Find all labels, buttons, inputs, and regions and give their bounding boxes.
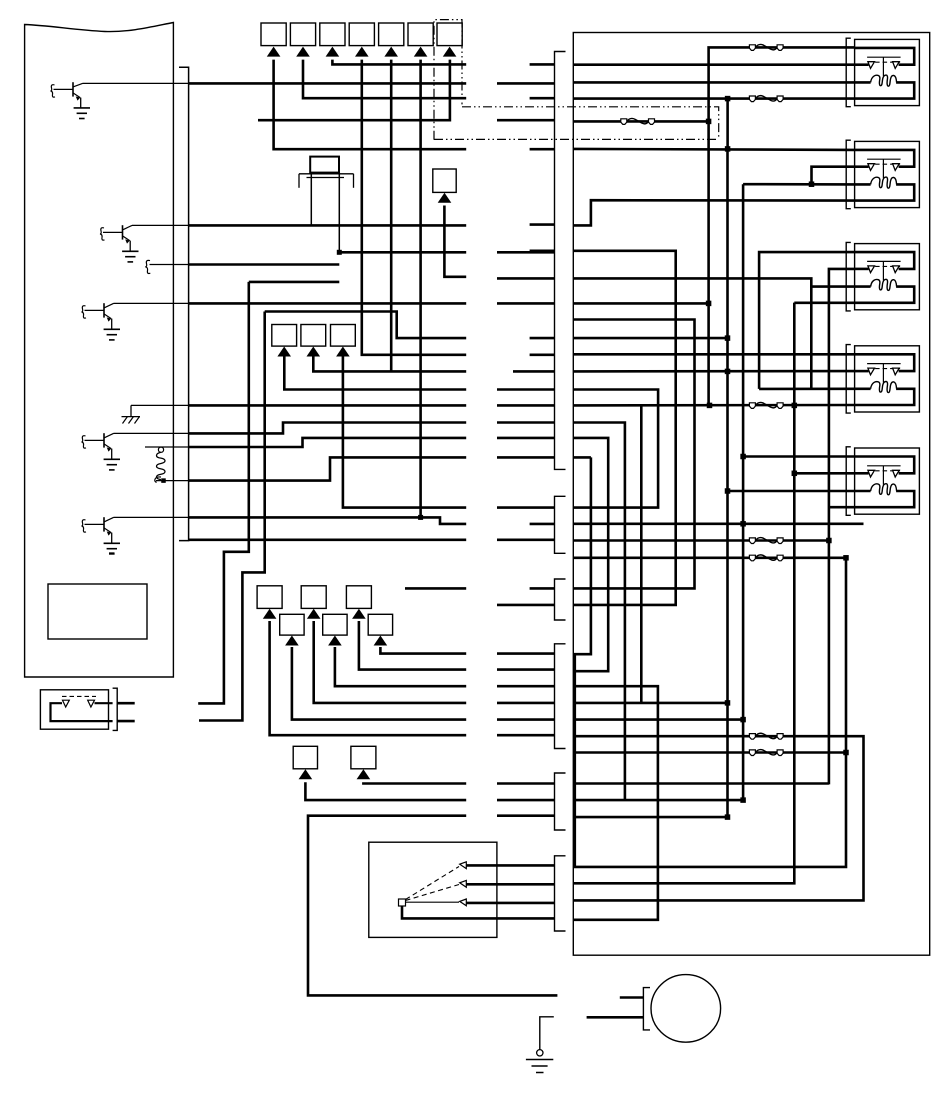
junction F5 [826,538,832,544]
distributor circle [651,975,721,1043]
wire B6 stem [419,60,422,518]
wire T1 e4 [573,97,854,100]
wire trunk x727 [726,149,729,817]
arrow into B3 [326,47,340,57]
wire T3 e3 branch [811,285,854,288]
wire E1 stem [305,782,466,800]
wire C-group stem2 [313,356,466,371]
sensor box D5 [346,586,371,609]
wire D2 stem [292,647,466,720]
junction B6/Q5 [418,515,423,520]
dash-dot harness boundary around B7 [434,20,719,140]
switch common contact [399,899,406,906]
wire B7 stem [258,60,450,121]
fuse F7 [749,734,755,740]
wire D5 stem [359,621,466,670]
fuse F4 [749,403,755,409]
arrow into B1 [267,47,281,57]
junction x743 a [740,521,746,527]
wire y588 left piece [405,587,466,590]
junction F2 [725,96,731,102]
fuse F8 [749,750,755,756]
sensor box C2 [301,325,326,347]
wire y523 run [573,522,863,525]
wire Q1 collector run [189,82,467,85]
ground symbol [537,1050,543,1056]
ignition coil T5 [846,447,851,516]
wire fused feed2 [573,751,846,754]
wire key net A horiz [249,281,339,284]
arrow into D2 [285,636,299,646]
arrow into B4 [355,47,369,57]
relay K1 box [40,690,108,729]
junction B+ t1 [725,146,731,152]
switch wire START [467,902,555,905]
connector bracket J/C F [555,856,566,931]
ground wire stub [540,1017,554,1050]
wire T3 e1 [759,252,855,389]
wire bracket4 n6 fused [573,736,863,900]
wire trunk x846 [573,558,846,867]
wire net B [199,312,265,721]
junction b5n3 [725,814,731,820]
arrow into D6 [374,636,388,646]
wire B3 stem [332,60,466,65]
sensor box D4 [323,614,347,635]
sensor box D1 [257,586,282,609]
ECU module outline (torn top edge) [25,23,174,678]
relay K1 output wires [117,702,135,705]
wire B4 stem [362,60,466,355]
wire trunk x743 [742,184,745,800]
wire D1 stem [270,621,467,735]
wire fuse B+ run [573,120,708,123]
indicator box B6 [408,23,433,46]
junction F6 [843,555,849,561]
wire T2 e2 [812,167,855,185]
wire fused pair 1 [573,539,829,542]
connector bracket J/C E [555,773,566,830]
wire D3 stem [314,621,467,703]
wire T5 e3 branch [728,490,855,493]
transistor Q1 [51,85,56,97]
chassis ground symbol [131,404,189,406]
relay K1 connector bracket [113,688,118,730]
junction y338 [725,335,731,341]
B8 feed wire [444,206,466,277]
wire B+ trunk upper [726,99,729,149]
junction T5 e1 [740,454,746,460]
junction y302 [706,301,712,307]
wire T5 e1 branch [743,455,855,458]
junction T4 e2 [725,369,731,375]
wire T1 e2 [573,63,854,66]
arrow into B6 [414,47,428,57]
arrow into C2 [307,347,321,357]
indicator box B8 [433,169,456,192]
arrow into D3 [307,609,321,619]
wire Q2 collector run [189,224,467,227]
junction x743 b [740,797,746,803]
wire switch feed edge [573,654,576,867]
arrow into C3 [336,347,350,357]
wire T4 e3 [759,387,855,390]
arrow into B2 [296,47,310,57]
wire T4 e1 [573,353,854,356]
ECU label dash [109,552,115,554]
switch throw dashed 1 [406,867,460,900]
wire T3 e4 branch [794,301,854,304]
ignition coil T1 [846,38,851,107]
junction T2 e2 [809,181,815,187]
connector bracket J/C A [555,52,566,470]
distributor bracket [643,988,650,1030]
arrow into E2 [357,769,371,779]
wire Q5 collector run [189,517,467,524]
switch wire ACC [467,864,555,867]
switch throw dashed 2 [406,885,460,901]
wire main feed loop [308,816,557,996]
wire y302 feed [573,302,708,305]
wire trunk x641 lower [640,508,643,703]
wire fused feed to T1 [709,47,855,121]
indicator box B7 [437,23,462,46]
wire J1 run [189,263,340,266]
wire y251 to trunk [573,251,675,605]
wire B1 stem [274,60,467,150]
transistor Q4 [82,436,87,448]
arrow into D1 [263,609,277,619]
wire B5 stem [390,60,393,372]
wire y338 feed [573,337,727,340]
sensor box D2 [280,614,304,635]
fuse F3 [621,119,627,125]
wire T2 e4 [573,200,854,225]
input curl J1 [145,260,150,273]
wire R1-top run [189,438,467,447]
wire y539 run [189,538,467,541]
ECU connector bracket [179,67,189,540]
ignition switch box [369,842,497,937]
sensor box D3 [301,586,326,609]
wire y457 stub piece [573,456,591,459]
junction F3 [706,119,712,125]
wire T2 e3 [743,183,855,186]
wire key net A [198,282,249,704]
wire bracket5 n2 [573,799,743,802]
wire T5 e4 [573,390,658,508]
transistor Q2 [100,228,105,240]
arrow into E1 [299,769,313,779]
switch wire ON [467,883,555,886]
ECU inner label box [48,584,147,639]
S1 left lead [310,173,312,226]
indicator box B2 [290,23,315,46]
junction F8 [843,750,849,756]
indicator box B1 [261,23,286,46]
ignition switch S1 [310,157,339,173]
connector bracket J/C D [555,644,566,749]
fuse F6 [749,555,755,561]
junction F4 b [792,403,798,409]
junction n5 [740,717,746,723]
wire trunk x625 [573,423,625,801]
relay K1 contacts [62,695,96,697]
distributor wire 2 [587,1016,644,1019]
wire net-311 [265,312,467,339]
sensor box D6 [368,614,392,635]
connector bracket J/C B [555,496,566,553]
indicator box B4 [349,23,374,46]
wire T3 e2 [829,269,855,785]
fuse F5 [749,538,755,544]
ignition coil T4 [846,345,851,414]
junction on R1 output [161,478,166,483]
relay K1 internal wiring [51,703,113,721]
wire trunk x794 [573,303,794,884]
arrow into C1 [277,347,291,357]
switch contact 1 [460,862,467,869]
indicator box B5 [379,23,404,46]
wire D6 stem [380,647,466,654]
sensor box E1 [293,746,317,769]
wire u-net y405 [640,405,643,507]
wire Q3 collector run [189,302,467,305]
transistor Q3 [82,306,87,318]
wire bracket5 n1 [573,782,829,785]
fuse F2 [749,96,755,102]
wire E2 stem [363,782,466,783]
wire bracket4 n5 [573,718,743,721]
wire chassis-gnd run [189,404,467,407]
wire trunk x694 [573,320,694,589]
wire stubs at junction block (long) [497,82,555,85]
switch contact 3 [460,899,467,906]
transistor Q5 [82,520,87,532]
switch contact 2 [460,880,467,887]
wire T4 e4 fused [573,404,854,407]
wire T5 e4b [829,506,855,509]
wire C-group stem1 [284,356,466,389]
junction T5 e3 [725,488,731,494]
arrow into D4 [328,636,342,646]
wire bracket4 n3 [573,686,658,920]
resistor R1 (coil) [145,446,189,448]
arrow into B7 [443,47,457,57]
wire T1 e3 [573,81,854,84]
indicator box B3 [320,23,345,46]
wire stubs at junction block (short) [530,63,555,66]
wire T2 e1 [573,149,854,150]
engine harness box [573,33,929,956]
wire trunk x708 [707,121,710,405]
fuse F1 [749,45,755,51]
wire Q4 collector run [189,423,467,434]
wire nested j1 [573,438,608,671]
wire S1 junction run [339,251,466,254]
ignition coil T3 [846,242,851,311]
arrow into D5 [352,609,366,619]
junction T5 e2 [792,471,798,477]
wire D4 stem [335,647,466,686]
wire bracket4 n4 [573,702,727,705]
junction S1 [337,250,342,255]
junction n4 [725,700,731,706]
wire T4 e2 [573,370,854,373]
wire fused pair 2 [573,556,846,559]
wire C-group stem3 [343,356,466,507]
connector bracket J/C C [555,579,566,620]
sensor box E2 [351,746,376,769]
sensor box C1 [272,325,297,347]
wire R1-bottom run [189,457,467,480]
wire nested j2 [573,457,591,654]
S1 right lead [338,173,340,253]
wire B2 stem [303,60,466,99]
junction F4 a [707,403,713,409]
wire T3 e3 trunk [573,278,811,389]
arrow into B5 [384,47,398,57]
sensor box C3 [331,325,356,347]
wire bracket5 n3 [573,816,727,819]
switch output wire [402,906,555,918]
wire T5 e2 branch [794,472,854,475]
distributor wire 1 [620,996,644,999]
ignition coil T2 [846,140,851,209]
arrow into B8 [438,193,452,203]
switch throw solid [406,901,460,903]
